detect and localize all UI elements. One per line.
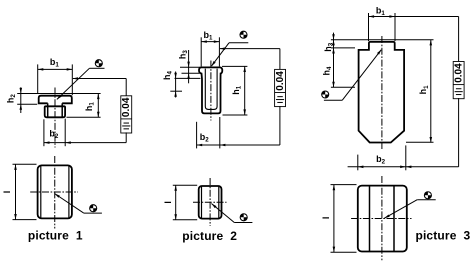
picture 1 T-profile flange outline (39, 96, 72, 104)
dimension h4 (picture 3) (322, 40, 356, 88)
dimension h1 (picture 1) (67, 94, 101, 118)
tolerance frame connector bottom (picture 3) (458, 98, 460, 167)
svg-text:b2: b2 (49, 128, 59, 140)
picture 1 lower boss outline (45, 106, 65, 117)
caption picture 3 (415, 229, 470, 243)
svg-text:l: l (163, 201, 173, 204)
side view 2 edge lines (202, 186, 219, 218)
surface symbol circle (side view 2) (240, 213, 248, 221)
shared extension line (picture 3) (331, 39, 434, 41)
picture 3 centerline (381, 36, 383, 149)
tolerance frame connector bottom (picture 2) (279, 106, 281, 145)
svg-text:b1: b1 (50, 57, 60, 69)
dimension b2 (picture 1) (44, 119, 126, 147)
dimension l (side view 1) (2, 164, 37, 219)
surface symbol leader (picture 1) (57, 68, 105, 99)
dimension b2 (picture 3) (348, 145, 459, 170)
dimension b1 (picture 3) (369, 5, 396, 41)
surface symbol leader (picture 3) (324, 49, 382, 100)
dimension b2 (picture 2) (197, 117, 280, 148)
caption picture 2 (182, 229, 237, 243)
svg-text:b1: b1 (204, 30, 214, 42)
svg-text:h4: h4 (162, 70, 174, 80)
surface symbol leader (side view 1) (55, 194, 102, 214)
surface symbol circle (side view 1) (89, 204, 97, 212)
tolerance frame 0.04 (picture 3) (453, 62, 464, 99)
svg-text:h3: h3 (178, 50, 190, 60)
svg-text:0.04: 0.04 (121, 97, 132, 117)
surface symbol circle (picture 3) (321, 90, 329, 98)
tolerance frame connector top (picture 2) (220, 47, 280, 69)
svg-text:l: l (2, 191, 12, 194)
dimension h1 (picture 3) (406, 40, 434, 143)
picture 2 inner bore edges (205, 69, 217, 110)
dimension l (side view 2) (163, 185, 197, 220)
svg-text:h1: h1 (84, 102, 96, 112)
surface symbol leader (picture 2) (211, 43, 248, 67)
dimension h1 (picture 2) (222, 66, 247, 115)
side view 3 outline (358, 186, 407, 252)
svg-text:picture 2: picture 2 (182, 229, 237, 243)
surface symbol circle (picture 1) (95, 59, 103, 67)
svg-text:h2: h2 (6, 94, 18, 104)
side view 3 edge lines (370, 186, 395, 251)
svg-text:b2: b2 (200, 132, 210, 144)
svg-text:h1: h1 (231, 85, 243, 95)
tolerance frame connector bottom (picture 1) (125, 132, 127, 142)
svg-text:l: l (321, 217, 331, 220)
dimension h3 (picture 3) (323, 33, 355, 55)
picture 3 body outline (359, 42, 405, 143)
side view 1 horizontal centerline (30, 191, 78, 193)
surface symbol leader (side view 2) (211, 204, 252, 223)
picture 1 centerline (54, 88, 56, 148)
side view 3 vertical centerline (381, 176, 383, 260)
svg-text:picture 1: picture 1 (28, 229, 83, 243)
surface symbol circle (picture 2) (239, 31, 247, 39)
dimension l (side view 3) (321, 185, 356, 253)
picture 1 boss neck edges (48, 103, 63, 117)
side view 2 vertical centerline (209, 178, 211, 226)
side view 1 edge lines (41, 166, 69, 218)
svg-text:picture 3: picture 3 (415, 229, 470, 243)
dimension b1 (picture 1) (38, 57, 73, 95)
dimension h3 (picture 2) (178, 50, 200, 84)
svg-text:b2: b2 (376, 154, 386, 166)
tolerance frame 0.04 (picture 1) (121, 96, 132, 133)
dimension b1 (picture 2) (201, 30, 219, 67)
side view 2 outline (199, 186, 222, 219)
side view 1 vertical centerline (54, 156, 56, 229)
svg-text:0.04: 0.04 (275, 71, 286, 91)
dimension h4 (picture 2) (162, 70, 200, 97)
picture 2 body outline (199, 67, 222, 113)
svg-text:0.04: 0.04 (454, 63, 465, 83)
svg-text:h4: h4 (322, 66, 334, 76)
surface symbol leader (side view 3) (384, 200, 436, 219)
side view 2 horizontal centerline (193, 201, 227, 203)
svg-text:b1: b1 (376, 5, 386, 17)
picture 2 centerline (210, 61, 212, 121)
tolerance frame 0.04 (picture 2) (275, 69, 286, 106)
dimension h2 (picture 1) (6, 87, 101, 113)
tolerance frame connector top (picture 1) (72, 77, 126, 96)
svg-text:h1: h1 (418, 85, 430, 95)
tolerance frame connector top (picture 3) (395, 17, 459, 62)
side view 3 horizontal centerline (351, 218, 411, 220)
side view 1 outline (38, 165, 72, 218)
surface symbol circle (side view 3) (424, 191, 432, 199)
caption picture 1 (28, 229, 83, 243)
